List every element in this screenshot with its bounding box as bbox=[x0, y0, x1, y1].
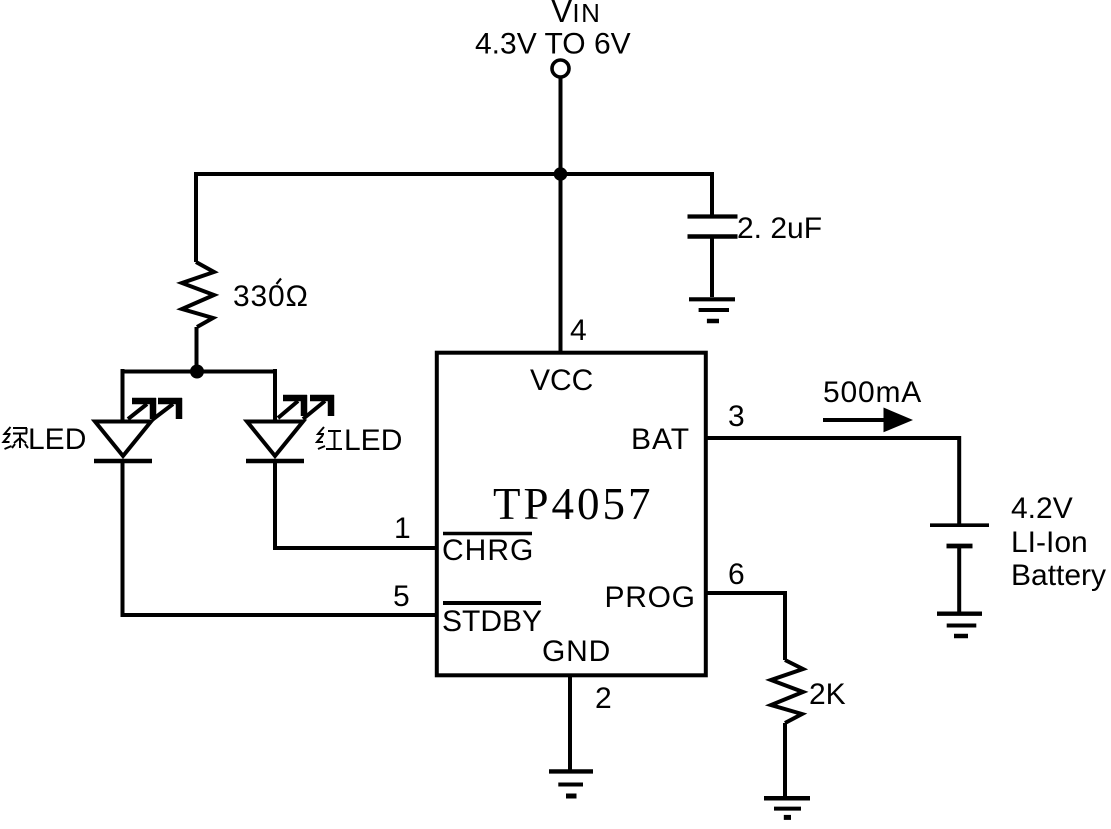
svg-text:330Ω: 330Ω bbox=[233, 280, 309, 313]
svg-text:LED: LED bbox=[344, 424, 402, 457]
capacitor C1 plates bbox=[688, 214, 738, 218]
wire LED rail bbox=[123, 370, 276, 374]
capacitor C1 lead top bbox=[710, 172, 714, 215]
resistor R1 330 ohm zigzag bbox=[182, 262, 214, 327]
wire VCC pin 4 bbox=[559, 174, 563, 351]
tick artifact above ohm bbox=[277, 279, 282, 285]
resistor R1 value 330ohm bbox=[233, 280, 309, 313]
wire pin 2 GND bbox=[568, 676, 572, 771]
svg-text:LED: LED bbox=[28, 423, 86, 456]
svg-text:LI-Ion: LI-Ion bbox=[1011, 526, 1088, 559]
svg-text:BAT: BAT bbox=[631, 423, 690, 456]
LED D2 arrows bbox=[278, 395, 334, 419]
svg-text:VIN: VIN bbox=[551, 0, 601, 29]
svg-text:VCC: VCC bbox=[530, 364, 593, 397]
svg-text:GND: GND bbox=[542, 635, 611, 668]
battery BT1 lead bottom bbox=[957, 548, 961, 612]
arrow 500mA bbox=[823, 418, 886, 422]
svg-text:TP4057: TP4057 bbox=[493, 479, 654, 529]
LED D1 cathode bar bbox=[94, 459, 152, 464]
svg-text:PROG: PROG bbox=[605, 581, 696, 614]
svg-text:2: 2 bbox=[595, 682, 612, 715]
label green LED (Chinese lu) bbox=[4, 427, 29, 449]
resistor R2 lead bottom bbox=[783, 723, 787, 798]
LED D2 red: triangle bbox=[247, 422, 303, 457]
svg-text:2. 2uF: 2. 2uF bbox=[737, 212, 822, 245]
svg-text:5: 5 bbox=[393, 580, 410, 613]
svg-text:4: 4 bbox=[570, 314, 587, 347]
wire stub to green LED bbox=[121, 369, 125, 421]
terminal VIN bbox=[552, 60, 569, 77]
svg-text:2K: 2K bbox=[809, 678, 846, 711]
ground (IC GND) bbox=[549, 771, 593, 796]
resistor R2 2K zigzag bbox=[771, 660, 803, 723]
wire pin 1 CHRG from red LED bbox=[275, 461, 437, 548]
junction node at VIN rail bbox=[554, 167, 568, 181]
resistor R1 lead top bbox=[194, 172, 198, 262]
svg-text:4.3V TO 6V: 4.3V TO 6V bbox=[475, 28, 631, 61]
wire pin 5 STDBY from green LED bbox=[123, 461, 438, 615]
wire stub to red LED bbox=[273, 369, 277, 421]
junction node at LED rail bbox=[190, 365, 204, 379]
wire top rail bbox=[196, 172, 712, 176]
svg-text:CHRG: CHRG bbox=[442, 534, 534, 567]
label battery 4.2V LI-Ion Battery bbox=[1011, 492, 1106, 592]
wire VIN vertical bbox=[559, 77, 563, 174]
ground (R2) bbox=[764, 798, 810, 817]
svg-text:Battery: Battery bbox=[1011, 559, 1106, 592]
ground (capacitor) bbox=[689, 299, 735, 321]
resistor R1 lead bottom bbox=[195, 327, 199, 371]
svg-text:4.2V: 4.2V bbox=[1011, 492, 1073, 525]
node VIN label bbox=[475, 0, 631, 61]
svg-text:1: 1 bbox=[394, 512, 411, 545]
ground (battery) bbox=[937, 614, 982, 636]
svg-text:3: 3 bbox=[728, 400, 745, 433]
capacitor C1 lead bottom bbox=[710, 238, 714, 297]
wire pin 3 BAT bbox=[706, 438, 959, 524]
LED D2 cathode bar bbox=[246, 459, 304, 464]
svg-text:500mA: 500mA bbox=[823, 376, 922, 409]
battery BT1 plates bbox=[930, 523, 989, 527]
label red LED (Chinese hong) bbox=[317, 427, 342, 449]
LED D1 arrows bbox=[128, 398, 182, 420]
IC U1 TP4057 body bbox=[437, 353, 706, 676]
LED D1 green: triangle bbox=[95, 422, 151, 457]
wire pin 6 PROG bbox=[706, 593, 785, 660]
svg-text:6: 6 bbox=[728, 558, 745, 591]
svg-text:STDBY: STDBY bbox=[442, 605, 542, 638]
